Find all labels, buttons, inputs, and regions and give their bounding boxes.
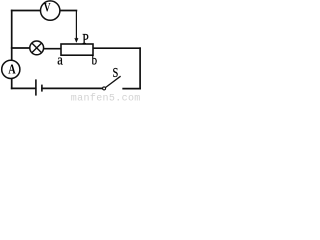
voltmeter V1 circle bbox=[41, 1, 60, 20]
wire voltmeter to slider bbox=[60, 10, 76, 12]
svg-text:P: P bbox=[82, 31, 89, 47]
svg-text:b: b bbox=[92, 54, 97, 69]
wire battery to switch bbox=[42, 87, 102, 89]
wire lamp left bbox=[12, 47, 30, 49]
wire bottom to battery bbox=[12, 87, 36, 89]
lamp L1 circle bbox=[30, 41, 44, 55]
svg-text:manfen5.com: manfen5.com bbox=[71, 93, 141, 101]
wire right vertical bbox=[139, 48, 141, 88]
switch lever bbox=[106, 76, 121, 87]
wire lamp to rheostat bbox=[44, 48, 61, 50]
lamp X diagonals bbox=[32, 43, 42, 53]
svg-text:S: S bbox=[113, 66, 119, 81]
switch S pivot circle bbox=[103, 87, 106, 90]
rheostat R body bbox=[61, 44, 93, 55]
wire left vertical bbox=[11, 11, 13, 60]
wire switch to right corner bbox=[123, 88, 140, 90]
wire top-left segment bbox=[12, 10, 41, 12]
ammeter A1 circle bbox=[2, 60, 20, 78]
wire rheostat right bbox=[93, 47, 140, 49]
svg-text:V: V bbox=[44, 0, 51, 14]
wire slider arrow stem bbox=[75, 11, 77, 41]
battery long plate bbox=[35, 79, 37, 95]
battery short plate bbox=[41, 85, 43, 92]
wire below ammeter bbox=[11, 79, 13, 88]
svg-text:a: a bbox=[57, 53, 63, 69]
svg-text:A: A bbox=[8, 62, 16, 77]
slider arrowhead bbox=[75, 38, 78, 42]
